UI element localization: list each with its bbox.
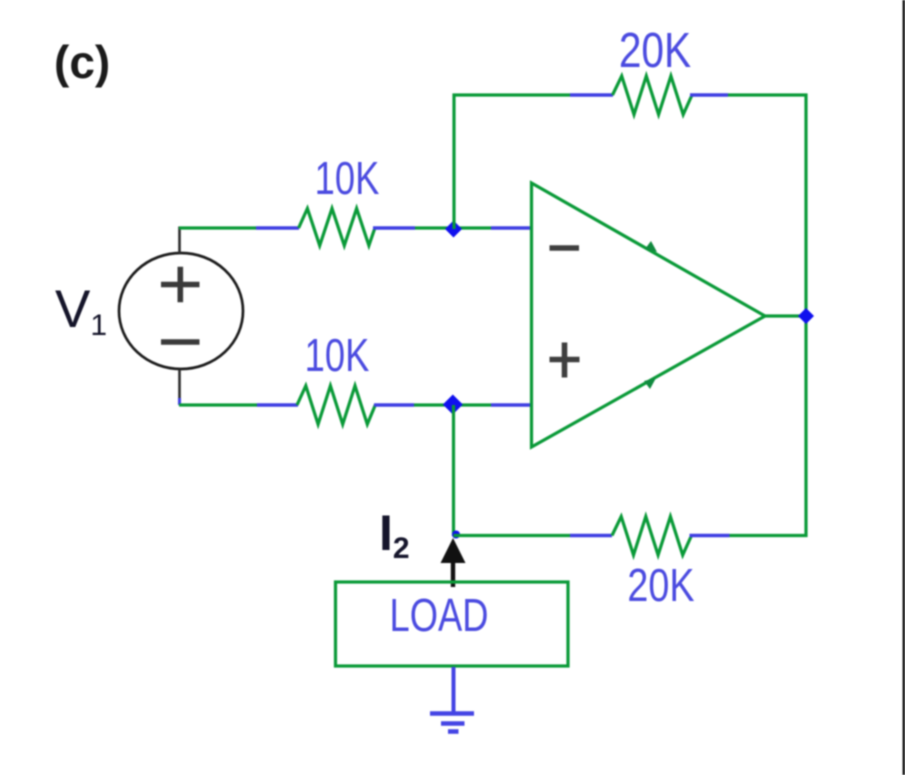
lead: R1 right (blue) [373,226,415,230]
wire: V1 bottom stub (black) [178,369,181,399]
resistor R4 20K zigzag [612,517,692,556]
svg-text:V1: V1 [55,280,107,342]
wire: blue corner bit under V1 [178,398,181,405]
ground [430,714,474,732]
wire: op-amp output [765,314,807,317]
lead: R2 right (blue) [374,403,414,407]
wire: plus node down vertical [452,405,455,536]
resistor R3 20K zigzag [613,76,693,115]
node: output junction [798,308,814,324]
lead: R4 right (blue) [690,534,730,538]
svg-text:20K: 20K [619,22,691,77]
lead: op-amp minus input (blue) [491,226,530,230]
wire: green to minus node [415,226,491,229]
lead: op-amp plus input (blue) [491,403,530,407]
wire: feedback top left horizontal [453,93,571,96]
wire: feedback top right horizontal [728,93,808,96]
op-amp minus sign [550,245,580,251]
lead: R1 left (blue) [256,226,299,230]
op-amp U1 triangle [532,183,766,447]
node: load junction dot [452,531,460,539]
wire: output right vertical [804,94,807,538]
svg-text:(c): (c) [54,36,110,88]
resistor R2 10K zigzag [297,386,375,424]
node: inverting input junction [445,221,462,238]
lead: R3 right (blue) [690,93,728,97]
arrow I2 (black, pointing up) [441,538,466,563]
wire: V1 top stub (black) [178,227,181,254]
lead: R3 left (blue) [570,93,613,97]
wire: bottom feedback right horizontal [730,534,808,537]
mark: arrow on top hypotenuse [645,241,657,252]
wire: feedback left vertical [452,94,455,230]
LOAD box [336,582,569,666]
svg-text:I2: I2 [379,505,410,565]
node: non-inverting input junction [443,395,463,415]
wire: bottom feedback left horizontal [454,534,571,537]
svg-text:10K: 10K [315,152,380,204]
lead: R4 left (blue) [570,534,612,538]
voltage source V1 [119,253,243,369]
wire: LOAD to ground (blue) [452,667,456,713]
op-amp plus sign [550,343,580,378]
page edge line (right) [903,0,905,775]
resistor R1 10K zigzag [299,209,375,246]
svg-text:20K: 20K [627,559,694,610]
lead: R2 left (blue) [257,403,298,407]
svg-text:LOAD: LOAD [390,589,489,641]
wire: green to plus node [414,403,491,406]
mark: arrow on bottom hypotenuse [644,378,656,389]
wire: bottom input row green (left of R2) [179,403,257,406]
svg-text:10K: 10K [305,329,370,381]
wire: top input row green (left of R1) [179,226,256,229]
